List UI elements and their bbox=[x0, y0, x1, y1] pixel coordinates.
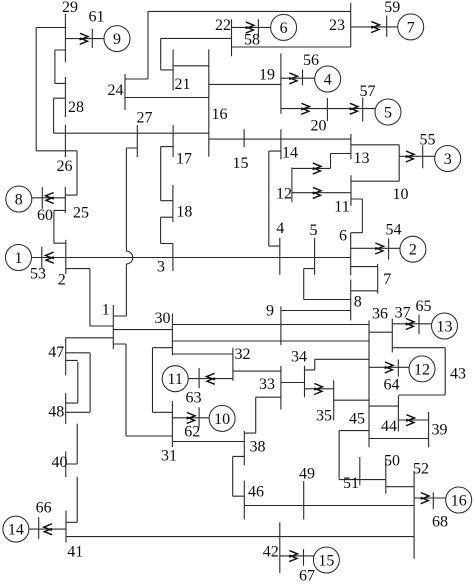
svg-text:26: 26 bbox=[57, 158, 73, 175]
svg-text:47: 47 bbox=[48, 344, 64, 361]
svg-text:62: 62 bbox=[184, 423, 200, 440]
svg-text:11: 11 bbox=[167, 371, 182, 388]
svg-text:4: 4 bbox=[324, 71, 332, 88]
svg-text:56: 56 bbox=[303, 52, 319, 69]
svg-text:10: 10 bbox=[393, 186, 409, 203]
svg-text:3: 3 bbox=[157, 258, 165, 275]
svg-text:7: 7 bbox=[383, 271, 391, 288]
svg-text:16: 16 bbox=[451, 492, 467, 509]
svg-text:10: 10 bbox=[214, 411, 230, 428]
svg-text:67: 67 bbox=[299, 567, 315, 584]
svg-text:63: 63 bbox=[186, 389, 202, 406]
svg-text:22: 22 bbox=[215, 17, 231, 34]
svg-text:15: 15 bbox=[318, 552, 334, 569]
svg-text:50: 50 bbox=[384, 452, 400, 469]
svg-text:28: 28 bbox=[68, 99, 84, 116]
svg-text:20: 20 bbox=[311, 117, 327, 134]
svg-text:41: 41 bbox=[67, 543, 83, 560]
svg-text:6: 6 bbox=[339, 227, 347, 244]
svg-text:45: 45 bbox=[349, 410, 365, 427]
svg-text:29: 29 bbox=[62, 0, 78, 16]
svg-text:46: 46 bbox=[248, 483, 264, 500]
svg-text:2: 2 bbox=[58, 271, 66, 288]
svg-text:9: 9 bbox=[113, 31, 121, 48]
svg-text:52: 52 bbox=[413, 460, 429, 477]
svg-text:34: 34 bbox=[291, 348, 307, 365]
svg-text:60: 60 bbox=[37, 207, 53, 224]
svg-text:6: 6 bbox=[280, 20, 288, 37]
svg-text:55: 55 bbox=[420, 131, 436, 148]
svg-text:66: 66 bbox=[36, 499, 52, 516]
svg-text:64: 64 bbox=[384, 376, 400, 393]
svg-text:14: 14 bbox=[8, 522, 24, 539]
svg-text:54: 54 bbox=[386, 221, 402, 238]
svg-text:1: 1 bbox=[15, 250, 23, 267]
svg-text:61: 61 bbox=[89, 8, 105, 25]
svg-text:8: 8 bbox=[354, 294, 362, 311]
svg-text:33: 33 bbox=[259, 376, 275, 393]
svg-text:36: 36 bbox=[372, 305, 388, 322]
svg-text:11: 11 bbox=[334, 198, 349, 215]
svg-text:37: 37 bbox=[395, 304, 411, 321]
svg-text:18: 18 bbox=[176, 203, 192, 220]
svg-text:40: 40 bbox=[52, 454, 68, 471]
svg-text:2: 2 bbox=[409, 242, 417, 259]
svg-text:12: 12 bbox=[414, 361, 430, 378]
svg-text:1: 1 bbox=[102, 301, 110, 318]
svg-text:3: 3 bbox=[444, 151, 452, 168]
svg-text:31: 31 bbox=[161, 447, 177, 464]
svg-text:9: 9 bbox=[266, 302, 274, 319]
svg-text:19: 19 bbox=[259, 66, 275, 83]
svg-text:25: 25 bbox=[73, 204, 89, 221]
svg-text:42: 42 bbox=[263, 543, 279, 560]
svg-text:24: 24 bbox=[108, 82, 124, 99]
svg-text:5: 5 bbox=[384, 104, 392, 121]
svg-text:16: 16 bbox=[212, 106, 228, 123]
svg-text:44: 44 bbox=[381, 418, 397, 435]
svg-text:49: 49 bbox=[299, 465, 315, 482]
svg-text:14: 14 bbox=[282, 144, 298, 161]
svg-text:59: 59 bbox=[384, 0, 400, 16]
svg-text:43: 43 bbox=[450, 365, 466, 382]
svg-text:53: 53 bbox=[30, 265, 46, 282]
svg-text:65: 65 bbox=[416, 298, 432, 315]
svg-text:27: 27 bbox=[137, 109, 153, 126]
svg-text:23: 23 bbox=[329, 17, 345, 34]
svg-text:8: 8 bbox=[15, 191, 23, 208]
svg-text:12: 12 bbox=[276, 186, 292, 203]
svg-text:57: 57 bbox=[360, 83, 376, 100]
svg-text:17: 17 bbox=[176, 150, 192, 167]
svg-text:51: 51 bbox=[343, 475, 359, 492]
svg-text:13: 13 bbox=[437, 318, 453, 335]
svg-text:58: 58 bbox=[244, 31, 260, 48]
svg-text:68: 68 bbox=[432, 513, 448, 530]
svg-text:32: 32 bbox=[235, 346, 251, 363]
svg-text:15: 15 bbox=[233, 155, 249, 172]
svg-text:35: 35 bbox=[316, 407, 332, 424]
svg-text:38: 38 bbox=[250, 438, 266, 455]
svg-text:5: 5 bbox=[310, 222, 318, 239]
svg-text:7: 7 bbox=[407, 19, 415, 36]
svg-text:4: 4 bbox=[276, 220, 284, 237]
svg-text:48: 48 bbox=[48, 403, 64, 420]
svg-text:13: 13 bbox=[354, 150, 370, 167]
svg-text:30: 30 bbox=[155, 310, 171, 327]
svg-text:21: 21 bbox=[175, 76, 191, 93]
svg-text:39: 39 bbox=[432, 421, 448, 438]
